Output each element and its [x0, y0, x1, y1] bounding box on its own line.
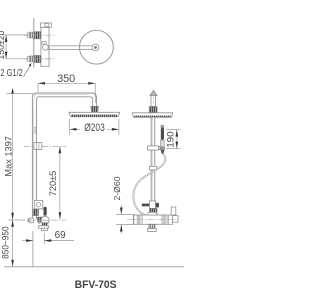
- bottom outlet (side): [149, 224, 155, 228]
- arm hub at head center: [92, 44, 99, 51]
- knurled handle right: [163, 215, 167, 224]
- dim 350 extension right: [94, 83, 96, 103]
- valve body (plan): [41, 27, 49, 66]
- valve centerline: [9, 219, 67, 221]
- svg-text:350: 350: [57, 73, 75, 85]
- cap detail square: [45, 24, 49, 27]
- lower inlet nut: [27, 57, 29, 62]
- valve body (side): [133, 215, 172, 224]
- reference dashed line (720 top): [24, 145, 34, 147]
- wall line: [33, 18, 35, 68]
- upper inlet centerline: [24, 34, 56, 36]
- top extension line: [6, 93, 33, 95]
- knurled handle left: [138, 215, 142, 224]
- holder clamp on pole (front): [33, 209, 38, 215]
- valve CL dashes at left: [9, 219, 21, 221]
- diverter knob: [41, 216, 49, 224]
- dim 150±20 line: [5, 35, 7, 59]
- dim 190 extension lines: [166, 129, 181, 131]
- svg-text:2 G1/2: 2 G1/2: [0, 68, 23, 79]
- dim 69 right extension: [43, 233, 45, 244]
- right end cap: [173, 216, 179, 223]
- head stem nut: [91, 106, 99, 112]
- shower arm (front view, tube with bends): [32, 93, 96, 106]
- svg-text:69: 69: [55, 230, 66, 241]
- wall inlet stub (front): [30, 218, 34, 223]
- svg-text:720±5: 720±5: [48, 171, 58, 197]
- riser pole (side): [150, 117, 152, 206]
- hand shower wand (side): [161, 125, 164, 127]
- riser finial cone: [150, 90, 157, 95]
- dim 69 arrows: [22, 240, 33, 242]
- arm inner highlight line: [34, 94, 90, 105]
- dim 350 extension left: [37, 83, 39, 92]
- spout (front): [42, 223, 47, 226]
- main vertical dim line: [12, 89, 14, 267]
- valve body block (front): [38, 217, 43, 222]
- svg-text:BFV-70S: BFV-70S: [75, 279, 117, 291]
- svg-text:850~950: 850~950: [1, 226, 11, 259]
- upper pipe (side): [151, 96, 156, 107]
- right top stub: [171, 207, 176, 215]
- lower inlet centerline: [24, 58, 56, 60]
- svg-text:Max 1397: Max 1397: [4, 136, 14, 177]
- nozzle ticks under disc: [72, 117, 117, 118]
- valve top clamp: [148, 212, 157, 215]
- hand shower holder bracket: [148, 146, 159, 150]
- dim Ø203 text: [80, 122, 107, 132]
- pole union nut: [34, 143, 42, 150]
- dim 150±20 extension lines: [2, 34, 29, 36]
- pole slot highlight: [34, 127, 36, 133]
- dim 350 line: [38, 82, 95, 84]
- riser pole (front): [31, 106, 33, 220]
- nozzle ticks (side): [135, 117, 170, 118]
- upper inlet nut: [27, 33, 29, 38]
- shower hose: [133, 154, 165, 217]
- shower head circle (top view): [80, 30, 114, 64]
- svg-text:2-Ø60: 2-Ø60: [112, 176, 122, 200]
- pole union nut (side): [149, 166, 157, 169]
- hand shower wand (front): [44, 207, 47, 216]
- valve centerline (side): [127, 219, 180, 221]
- valve top cap: [41, 23, 52, 27]
- left end cap lines: [133, 215, 135, 224]
- arm hub at valve: [43, 44, 49, 50]
- wall drop line: [32, 231, 34, 267]
- dim Ø203 line: [70, 128, 119, 130]
- svg-text:190: 190: [166, 131, 177, 147]
- shower head disc (front): [69, 112, 120, 116]
- Max 1397 arrows: [11, 88, 14, 93]
- dim 720±5 line: [59, 146, 61, 219]
- slider bracket (front): [34, 200, 43, 209]
- shower head (side edge): [132, 113, 173, 117]
- dim Ø203 extension lines: [69, 119, 71, 135]
- wand outlet nipple: [161, 150, 164, 154]
- body step detail: [42, 42, 46, 45]
- slider bracket (side): [149, 201, 155, 209]
- shower arm (plan): [48, 45, 93, 47]
- floor line: [4, 266, 184, 268]
- pole-valve connector (side): [149, 209, 157, 216]
- leader line to lower inlet: [24, 67, 30, 77]
- svg-text:150±20: 150±20: [0, 31, 6, 60]
- dim 190 line: [176, 130, 178, 149]
- head nut (side): [149, 107, 157, 113]
- dim 2-Ø60 arrows: [120, 205, 122, 215]
- dim 2-Ø60 extension lines: [116, 214, 134, 216]
- svg-text:Ø203: Ø203: [84, 122, 105, 134]
